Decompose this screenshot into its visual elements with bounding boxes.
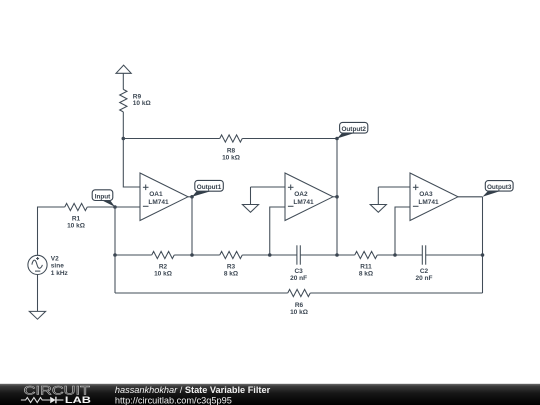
wire bottom rail segment 6 [426,254,483,256]
resistor R2 10 kOhm [152,251,175,277]
svg-text:OA2: OA2 [294,191,308,198]
svg-text:LM741: LM741 [418,199,439,206]
wire Input node down to bottom rail [114,207,116,255]
wire R1 to Input node [87,206,115,208]
junction rail/Output1 vertical [190,253,194,257]
svg-text:Output1: Output1 [197,184,222,191]
svg-text:sine: sine [51,263,64,270]
svg-text:Input: Input [95,193,111,200]
junction OA2 output [335,195,339,199]
svg-text:C2: C2 [420,268,429,275]
wire left vertical to lower rail [114,255,116,293]
svg-text:R2: R2 [159,263,168,270]
CircuitLab logo CIRCUIT [24,384,91,398]
svg-text:V2: V2 [51,255,59,262]
svg-text:8 kΩ: 8 kΩ [224,270,238,277]
op-amp OA2 LM741 [285,173,333,221]
junction rail/Output2 vertical [335,253,339,257]
wire lower rail segment 2 [310,292,482,294]
wire V2 top to input line [38,207,65,255]
svg-text:R6: R6 [295,302,304,309]
wire bottom rail segment 3 [242,254,297,256]
svg-text:LM741: LM741 [148,199,169,206]
svg-text:C3: C3 [294,268,303,275]
resistor R3 8 kOhm [220,251,243,277]
footer bar [0,384,540,405]
ground symbol below V2 [29,311,45,319]
svg-text:OA3: OA3 [419,191,433,198]
wire node A to R8 [123,138,219,140]
svg-text:R11: R11 [360,263,372,270]
junction bottom rail left [113,253,117,257]
junction Output3/bottom rail [481,253,485,257]
wire lower rail segment 1 [115,292,288,294]
junction Output2 node [335,137,339,141]
junction node A (R9/R8/OA1+) [122,137,126,141]
wire R9 to node A [122,112,124,139]
svg-text:OA1: OA1 [149,191,163,198]
ground symbol at OA3 + input [370,187,386,212]
wire from supply arrow to R9 [122,74,124,90]
node label Output2 [337,122,368,138]
voltage source V2 sine 1 kHz [28,255,69,277]
junction rail/OA3 - vertical [393,253,397,257]
resistor R6 10 kOhm [288,289,311,316]
CircuitLab logo resistor+diode+LAB [21,394,91,405]
resistor R8 10 kOhm [220,135,243,162]
wire OA3 - input to bottom rail [395,207,410,255]
svg-text:hassankhokhar / State Variable: hassankhokhar / State Variable Filter [115,385,271,395]
capacitor C3 20 nF [290,245,307,282]
capacitor C2 20 nF [416,245,433,282]
wire R8 to Output2 node [242,138,337,140]
svg-text:10 kΩ: 10 kΩ [133,100,151,107]
junction Output1 node [190,195,194,199]
svg-text:http://circuitlab.com/c3q5p95: http://circuitlab.com/c3q5p95 [115,396,232,405]
svg-text:10 kΩ: 10 kΩ [290,309,308,316]
resistor R11 8 kOhm [355,251,378,277]
resistor R9 10 kOhm (vertical) [120,89,151,112]
wire Output1 node down to bottom rail [191,197,193,255]
wire OA3 output to Output3 node [458,196,483,198]
junction rail/OA2 - vertical [268,253,272,257]
wire node A down to OA1 + input [123,139,140,188]
svg-text:20 nF: 20 nF [290,275,307,282]
wire Output3 node down to bottom rail and lower rail [482,197,484,293]
footer url text [115,396,232,405]
wire bottom rail segment 4 [300,254,354,256]
wire OA1 output to Output1 node [188,196,192,198]
node label Output1 [192,180,223,196]
node label Output3 [483,181,514,197]
svg-text:10 kΩ: 10 kΩ [67,222,85,229]
svg-text:Output3: Output3 [487,184,512,191]
svg-text:8 kΩ: 8 kΩ [359,270,373,277]
wire OA2 - input to bottom rail [270,207,285,255]
wire bottom rail segment 1 [115,254,152,256]
svg-text:1 kHz: 1 kHz [51,270,69,277]
svg-text:LAB: LAB [65,394,91,405]
junction Input node [113,205,117,209]
svg-text:R8: R8 [227,147,236,154]
footer author/title text [115,385,271,395]
wire ground to OA3 + input [378,186,410,188]
svg-text:R1: R1 [72,215,81,222]
wire OA2 output to vertical [333,196,337,198]
svg-text:20 nF: 20 nF [416,275,433,282]
svg-text:LM741: LM741 [293,199,314,206]
op-amp OA1 LM741 [140,173,188,221]
power supply arrow VDD [116,65,131,73]
wire Input node to OA1 - input [115,206,140,208]
op-amp OA3 LM741 [410,173,458,221]
wire bottom rail segment 2 [174,254,220,256]
resistor R1 10 kOhm [65,203,88,229]
wire Output2 vertical (node to rail) [336,139,338,256]
node label Input [92,190,115,207]
ground symbol at OA2 + input [242,187,258,212]
wire bottom rail segment 5 [377,254,422,256]
svg-text:10 kΩ: 10 kΩ [222,154,240,161]
svg-text:Output2: Output2 [341,126,366,133]
wire ground to OA2 + input [251,186,286,188]
wire V2 bottom to ground [37,275,39,312]
svg-text:R3: R3 [227,263,236,270]
svg-text:10 kΩ: 10 kΩ [154,270,172,277]
